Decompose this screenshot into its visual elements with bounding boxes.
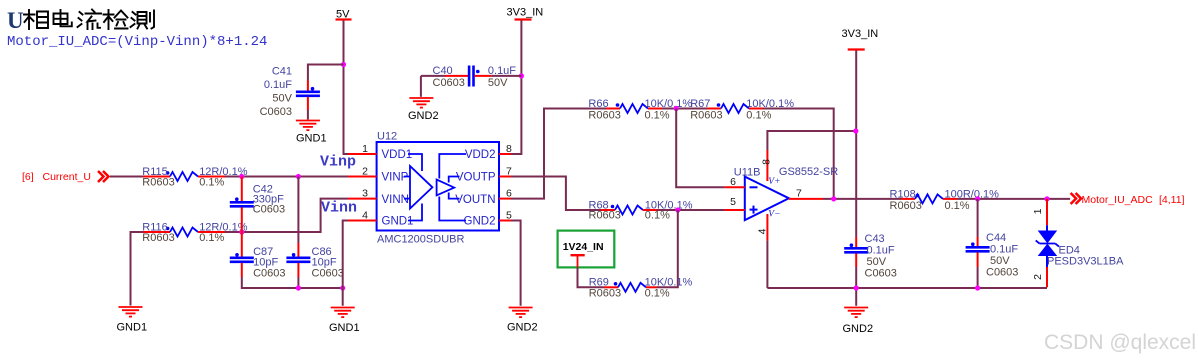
svg-text:C0603: C0603 bbox=[312, 267, 344, 279]
svg-text:C0603: C0603 bbox=[986, 267, 1018, 279]
op-amp U11B GS8552-SR bbox=[725, 150, 839, 241]
svg-text:R0603: R0603 bbox=[890, 200, 922, 212]
svg-text:[6]: [6] bbox=[22, 171, 34, 183]
svg-text:GND2: GND2 bbox=[843, 323, 874, 335]
svg-text:CSDN @qlexcel: CSDN @qlexcel bbox=[1044, 331, 1196, 354]
svg-text:C43: C43 bbox=[865, 233, 885, 245]
svg-text:U11B: U11B bbox=[734, 167, 761, 179]
wire R116 to pin3 elbow (Vinn net) bbox=[225, 199, 348, 232]
svg-text:2: 2 bbox=[1032, 274, 1044, 280]
port Current_U [6] bbox=[22, 171, 109, 183]
U12 pin 1 VDD1 bbox=[348, 153, 377, 155]
svg-text:VDD1: VDD1 bbox=[382, 149, 413, 161]
junction Vinp/C42 bbox=[239, 174, 244, 179]
svg-text:4: 4 bbox=[757, 228, 769, 234]
svg-text:Vinp: Vinp bbox=[320, 154, 356, 171]
svg-text:V−: V− bbox=[768, 210, 780, 220]
resistor R67 10K/0.1% bbox=[690, 98, 794, 122]
svg-text:GND1: GND1 bbox=[117, 322, 148, 334]
svg-text:6: 6 bbox=[730, 176, 736, 188]
wire R116 left to GND1 drop bbox=[131, 232, 144, 306]
capacitor C41 0.1uF bbox=[260, 66, 320, 119]
svg-text:0.1%: 0.1% bbox=[645, 209, 670, 221]
wire U12 pin4 to GND1 bbox=[343, 221, 348, 306]
svg-text:7: 7 bbox=[796, 188, 802, 200]
svg-text:GND1: GND1 bbox=[329, 322, 360, 334]
wire C86 bottom stub bbox=[297, 277, 299, 288]
U12 pin 3 VINN bbox=[348, 198, 377, 200]
svg-text:GND1: GND1 bbox=[296, 133, 327, 145]
ground GND2 right bbox=[843, 308, 874, 336]
svg-text:Vinn: Vinn bbox=[321, 200, 357, 217]
svg-text:0.1uF: 0.1uF bbox=[990, 244, 1018, 256]
wire 1V24_IN to R69 bbox=[578, 267, 605, 287]
svg-text:[4,11]: [4,11] bbox=[1159, 194, 1185, 206]
junction C43/rail bbox=[854, 285, 859, 290]
svg-text:C44: C44 bbox=[986, 232, 1006, 244]
svg-text:50V: 50V bbox=[272, 93, 292, 105]
svg-text:Current_U: Current_U bbox=[43, 171, 91, 183]
svg-text:GND2: GND2 bbox=[464, 216, 496, 228]
junction Vinn/C42 bbox=[239, 229, 244, 234]
power 5V bbox=[336, 9, 352, 21]
svg-text:R0603: R0603 bbox=[589, 288, 621, 300]
resistor R66 10K/0.1% bbox=[588, 98, 692, 122]
svg-text:4: 4 bbox=[362, 210, 368, 222]
wire R69 riser to pin5 node bbox=[657, 210, 678, 287]
svg-text:50V: 50V bbox=[990, 255, 1010, 267]
svg-text:0.1uF: 0.1uF bbox=[488, 65, 516, 77]
wire 3V3 right rail down to C43 bbox=[855, 51, 857, 238]
svg-text:PESD3V3L1BA: PESD3V3L1BA bbox=[1047, 256, 1124, 268]
wire R115 to U12 pin2 (Vinp net) bbox=[225, 176, 348, 178]
resistor R69 10K/0.1% bbox=[589, 277, 693, 300]
junction ED4 top bbox=[1044, 196, 1049, 201]
svg-text:C0603: C0603 bbox=[260, 106, 292, 118]
wire C44 to bottom rail bbox=[977, 267, 979, 288]
resistor R108 100R/0.1% bbox=[890, 188, 1000, 211]
svg-text:C0603: C0603 bbox=[253, 267, 285, 279]
svg-text:GND1: GND1 bbox=[382, 216, 414, 228]
svg-text:50V: 50V bbox=[488, 77, 508, 89]
svg-text:50V: 50V bbox=[867, 256, 887, 268]
wire C40 to ground bbox=[420, 76, 422, 97]
svg-text:8: 8 bbox=[506, 143, 512, 155]
svg-text:C0603: C0603 bbox=[865, 268, 897, 280]
wire V- down to bottom rail bbox=[766, 241, 768, 288]
port 1V24_IN (green box) bbox=[558, 231, 615, 268]
svg-text:0.1%: 0.1% bbox=[746, 110, 771, 122]
svg-text:1V24_IN: 1V24_IN bbox=[563, 241, 604, 253]
wire R68 to op-amp non-inverting input bbox=[657, 209, 725, 211]
junction C44 top bbox=[975, 196, 980, 201]
U11B pin 5 stub bbox=[725, 209, 745, 211]
junction R68/R69 node bbox=[675, 207, 680, 212]
svg-text:R0603: R0603 bbox=[690, 110, 722, 122]
TVS diode ED4 PESD3V3L1BA bbox=[1032, 199, 1124, 287]
svg-text:V+: V+ bbox=[768, 177, 780, 187]
svg-text:VOUTP: VOUTP bbox=[456, 172, 496, 184]
svg-text:R0603: R0603 bbox=[142, 232, 174, 244]
junction 5V/C41 bbox=[341, 62, 346, 67]
svg-text:GND2: GND2 bbox=[408, 110, 439, 122]
svg-text:0.1%: 0.1% bbox=[199, 232, 224, 244]
U12 pin names bbox=[382, 149, 496, 228]
U11B pin 7 output stub bbox=[789, 198, 823, 200]
svg-text:GND2: GND2 bbox=[507, 322, 538, 334]
junction C44/rail bbox=[975, 285, 980, 290]
svg-text:3V3_IN: 3V3_IN bbox=[842, 28, 879, 40]
svg-text:3V3_IN: 3V3_IN bbox=[507, 7, 544, 19]
svg-text:0.1%: 0.1% bbox=[199, 177, 224, 189]
wire R66-R67 bbox=[662, 108, 707, 110]
svg-text:VDD2: VDD2 bbox=[465, 149, 496, 161]
ground GND1 left bbox=[117, 307, 148, 334]
svg-text:0.1uF: 0.1uF bbox=[264, 79, 292, 91]
op-amp U12 AMC1200SDUBR bbox=[348, 131, 512, 246]
U11B pin 6 stub bbox=[725, 186, 745, 188]
svg-text:GS8552-SR: GS8552-SR bbox=[779, 166, 838, 178]
wire R108 to output port bbox=[957, 198, 1070, 200]
svg-text:1: 1 bbox=[362, 143, 368, 155]
wire U12 pin5 to GND2 bbox=[511, 221, 521, 306]
U12 internal amplifier triangles bbox=[404, 154, 466, 221]
svg-text:5: 5 bbox=[730, 196, 736, 208]
svg-text:0.1%: 0.1% bbox=[645, 110, 670, 122]
ground GND1 center bbox=[329, 308, 360, 335]
svg-text:U: U bbox=[7, 8, 24, 33]
junction Vinp/C86 bbox=[296, 174, 301, 179]
U12 pin 8 VDD2 bbox=[499, 153, 511, 155]
svg-text:U12: U12 bbox=[377, 131, 397, 143]
svg-text:C41: C41 bbox=[272, 66, 292, 78]
capacitor C86 10pF bbox=[286, 177, 344, 280]
capacitor C40 0.1uF bbox=[421, 65, 522, 89]
U12 pin 5 GND2 bbox=[499, 220, 511, 222]
svg-text:3: 3 bbox=[362, 188, 368, 200]
wire C43 to bottom rail / GND2 bbox=[855, 267, 857, 306]
wire R67 to output node (feedback) bbox=[763, 109, 834, 199]
U12 pin 4 GND1 bbox=[348, 220, 377, 222]
wire op-amp output to R108 bbox=[823, 198, 901, 200]
capacitor C42 330pF bbox=[230, 177, 285, 233]
wire 3V3_IN rail down to U12 pin8 bbox=[511, 21, 521, 155]
port Motor_IU_ADC [4,11] bbox=[1071, 193, 1185, 206]
wire 5V to C41 bbox=[308, 65, 344, 81]
wire C87 bottom rail bbox=[242, 277, 343, 288]
wire input to R115 bbox=[110, 176, 143, 178]
svg-text:R67: R67 bbox=[690, 98, 710, 110]
wire C41 to ground bbox=[307, 110, 309, 120]
svg-text:R66: R66 bbox=[588, 98, 608, 110]
svg-text:0.1%: 0.1% bbox=[945, 200, 970, 212]
capacitor C87 10pF bbox=[230, 232, 286, 279]
svg-text:R0603: R0603 bbox=[142, 177, 174, 189]
svg-text:AMC1200SDUBR: AMC1200SDUBR bbox=[377, 234, 464, 246]
title text U相电流检测 bbox=[7, 8, 154, 33]
svg-text:R0603: R0603 bbox=[589, 209, 621, 221]
wire V+ to 3V3 rail bbox=[767, 131, 855, 150]
svg-text:R0603: R0603 bbox=[588, 110, 620, 122]
svg-text:R108: R108 bbox=[890, 188, 916, 200]
power 3V3_IN right bbox=[842, 28, 879, 50]
junction 3V3/C40 bbox=[519, 73, 524, 78]
resistor R115 12R/0.1% bbox=[142, 166, 247, 189]
svg-text:C0603: C0603 bbox=[253, 203, 285, 215]
svg-text:VOUTN: VOUTN bbox=[455, 194, 495, 206]
wire R66 tap down to op-amp inverting input bbox=[676, 109, 724, 188]
svg-text:1: 1 bbox=[1032, 208, 1044, 214]
junction pin4-drop/rail bbox=[340, 285, 345, 290]
wire U12 pin7 to R68 bbox=[511, 177, 601, 211]
U12 pin 7 VOUTP bbox=[499, 176, 511, 178]
ground GND1 under C41 bbox=[296, 121, 327, 145]
U12 pin 6 VOUTN bbox=[499, 198, 511, 200]
wire U12 pin6 riser to R66 bbox=[511, 109, 606, 199]
bottom rail op-amp side bbox=[767, 287, 1047, 289]
ground GND2 under U12 bbox=[507, 308, 538, 334]
svg-text:Motor_IU_ADC: Motor_IU_ADC bbox=[1082, 194, 1154, 206]
junction output/feedback bbox=[831, 196, 836, 201]
svg-text:VINN: VINN bbox=[382, 194, 409, 206]
svg-text:C40: C40 bbox=[433, 65, 453, 77]
capacitor C43 0.1uF bbox=[844, 233, 897, 280]
resistor R68 10K/0.1% bbox=[589, 199, 693, 221]
capacitor C44 0.1uF bbox=[966, 199, 1019, 279]
resistor R116 12R/0.1% bbox=[142, 221, 247, 244]
svg-text:Motor_IU_ADC=(Vinp-Vinn)*8+1.2: Motor_IU_ADC=(Vinp-Vinn)*8+1.24 bbox=[7, 34, 267, 50]
U12 pin 2 VINP bbox=[348, 176, 377, 178]
U11B pin 4 V- stub bbox=[766, 214, 768, 241]
svg-text:C0603: C0603 bbox=[433, 77, 465, 89]
svg-text:VINP: VINP bbox=[382, 172, 409, 184]
junction C86/rail bbox=[296, 285, 301, 290]
svg-text:0.1uF: 0.1uF bbox=[867, 245, 895, 257]
power 3V3_IN top bbox=[507, 7, 544, 20]
junction 3V3/V+ bbox=[853, 128, 858, 133]
U12 pin numbers bbox=[362, 143, 512, 222]
svg-text:8: 8 bbox=[761, 159, 773, 165]
junction R66/R67 feedback tap bbox=[674, 106, 679, 111]
svg-text:0.1%: 0.1% bbox=[645, 288, 670, 300]
svg-text:2: 2 bbox=[362, 166, 368, 178]
ground GND2 under C40 bbox=[408, 98, 439, 122]
U11B pin 8 V+ stub bbox=[766, 150, 768, 181]
wire 5V rail down to U12 pin1 bbox=[344, 21, 349, 155]
